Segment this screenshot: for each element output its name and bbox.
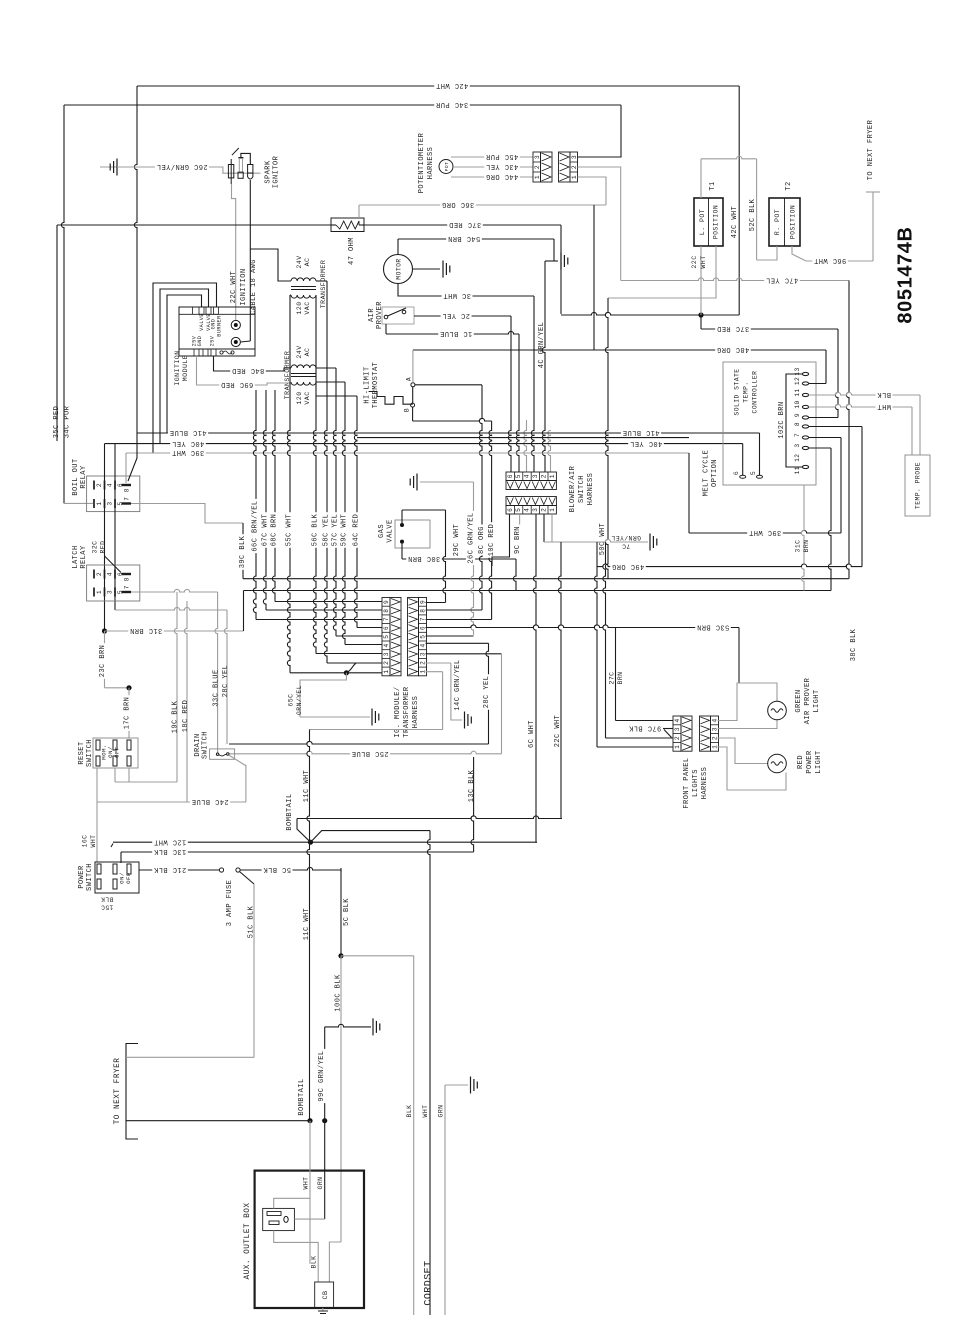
wire green light top path xyxy=(718,683,778,721)
wire 13C BLK riser xyxy=(471,757,474,852)
svg-text:GRN: GRN xyxy=(438,1105,445,1118)
svg-text:5: 5 xyxy=(420,635,427,639)
wire bombtail to bracket xyxy=(126,1120,310,1122)
wire T2 position to 96C WHT xyxy=(792,246,806,261)
wire 10C RED drop xyxy=(489,421,492,620)
svg-text:38C BLK: 38C BLK xyxy=(850,628,858,661)
wire 1C BLUE xyxy=(385,324,387,334)
label 67C WHT xyxy=(260,512,269,548)
svg-text:GAS: GAS xyxy=(378,524,386,538)
wire 26C GRN/YEL mid xyxy=(471,482,474,635)
label 41C BLUE right xyxy=(621,428,661,437)
wire 37C RED to T junction riser xyxy=(560,225,562,314)
svg-text:POT: POT xyxy=(444,162,450,172)
wire block2 pin5 from 26C xyxy=(426,635,474,637)
box solid state temp controller xyxy=(723,362,816,485)
label 58C YEL xyxy=(321,512,330,548)
wire 3C WHT drop to blower pin3 xyxy=(531,296,534,472)
svg-text:65C: 65C xyxy=(288,694,295,707)
svg-text:TEMP. PROBE: TEMP. PROBE xyxy=(915,462,922,509)
fan wire pin9 xyxy=(275,601,382,603)
box TEMP PROBE xyxy=(905,455,930,516)
fan wire pin2 xyxy=(327,662,382,664)
wire 99C GRN/YEL xyxy=(324,1027,326,1219)
svg-text:8: 8 xyxy=(124,577,131,581)
label 49C ORG xyxy=(610,562,646,571)
svg-text:2C YEL: 2C YEL xyxy=(442,311,470,319)
wire 39C BLK xyxy=(131,504,243,524)
svg-text:41C BLUE: 41C BLUE xyxy=(622,428,659,436)
svg-text:54C BRN: 54C BRN xyxy=(448,234,481,242)
svg-text:2: 2 xyxy=(674,736,681,740)
svg-text:13C BLK: 13C BLK xyxy=(153,847,186,855)
label 96C WHT xyxy=(812,256,848,265)
wire 39C WHT lower xyxy=(689,530,841,533)
label 39C WHT left xyxy=(170,448,206,457)
svg-text:58C YEL: 58C YEL xyxy=(322,514,330,547)
wire module top loop 2 xyxy=(160,289,209,444)
bus extra line xyxy=(357,437,689,439)
label 26C GRN/YEL mid xyxy=(466,511,475,565)
wire 99C ground lead xyxy=(325,1024,371,1027)
wire 36C ORG to 48C ORG riser xyxy=(593,205,595,350)
wire front pin3 line 97C BLK xyxy=(663,728,673,730)
svg-text:102C BRN: 102C BRN xyxy=(778,401,786,438)
wire thermostat A to 8C ORG drop xyxy=(415,384,482,386)
wire 47C YEL drop to bus line xyxy=(846,281,849,579)
label 59C WHT xyxy=(339,512,348,548)
ground spark igniter xyxy=(100,166,117,168)
wire 22C WHT T1 drop xyxy=(700,246,702,315)
wire 30C BRN xyxy=(401,542,403,559)
svg-text:29C WHT: 29C WHT xyxy=(453,524,461,557)
label 44C ORG xyxy=(484,172,520,181)
wire block2 pin3 to 25C riser xyxy=(426,653,502,655)
svg-text:2: 2 xyxy=(571,165,578,169)
svg-text:2: 2 xyxy=(96,483,103,487)
svg-text:31C: 31C xyxy=(795,540,802,553)
connector IG module harness left xyxy=(382,598,390,676)
wire 11C WHT main xyxy=(307,730,310,1121)
wire 35C RED xyxy=(56,225,58,441)
label 84C RED xyxy=(230,366,266,375)
svg-text:120: 120 xyxy=(296,301,303,314)
label 8C ORG xyxy=(476,525,485,556)
svg-text:14C GRN/YEL: 14C GRN/YEL xyxy=(454,659,462,710)
wire front pin1 line xyxy=(597,746,673,748)
wire 28C YEL upper xyxy=(224,610,227,744)
svg-text:3: 3 xyxy=(107,501,114,505)
wire front pin1 drop xyxy=(594,542,597,747)
svg-text:6: 6 xyxy=(507,508,514,512)
wire 23C to 17C link xyxy=(105,687,130,689)
wire 5C BLK horizontal xyxy=(240,867,341,870)
wire 45C PUR xyxy=(451,156,533,158)
label 31C BRN left xyxy=(128,626,164,635)
svg-text:34C PUR: 34C PUR xyxy=(63,405,71,438)
label 17C BRN xyxy=(122,695,131,731)
wire 42C WHT top bus xyxy=(137,85,739,87)
svg-text:25C BLUE: 25C BLUE xyxy=(351,749,388,757)
label 23C BRN xyxy=(97,643,106,679)
svg-text:8: 8 xyxy=(794,422,801,426)
svg-text:28C YEL: 28C YEL xyxy=(483,676,491,709)
svg-text:THERMOSTAT: THERMOSTAT xyxy=(372,362,380,409)
svg-text:7: 7 xyxy=(124,585,131,589)
svg-text:TO NEXT FRYER: TO NEXT FRYER xyxy=(867,119,875,180)
receptacle xyxy=(263,1208,295,1230)
svg-text:VALVE: VALVE xyxy=(386,519,394,542)
resistor 47 OHM xyxy=(331,218,364,232)
wire red light bottom path xyxy=(718,747,787,790)
svg-text:4: 4 xyxy=(107,483,114,487)
wire 2C YEL drop xyxy=(508,316,511,472)
svg-text:52C BLK: 52C BLK xyxy=(749,198,757,231)
wire 52C BLK xyxy=(756,159,758,260)
svg-text:1: 1 xyxy=(383,669,390,673)
wire thermostat A riser 48C xyxy=(412,350,414,383)
wire 28C YEL horizontal xyxy=(229,741,489,744)
wire ignition cable dark xyxy=(249,180,251,341)
relay K1 pins xyxy=(93,481,95,490)
wire 6C WHT corner xyxy=(536,841,537,843)
svg-text:BOMBTAIL: BOMBTAIL xyxy=(298,1078,306,1115)
label 56C BLK xyxy=(310,512,319,548)
label 3C WHT xyxy=(442,291,473,300)
wire 69C RED xyxy=(197,356,292,385)
svg-text:34C PUR: 34C PUR xyxy=(435,100,468,108)
wire 5C BLK drop xyxy=(340,868,342,872)
wire pin3 riser xyxy=(809,447,831,449)
svg-text:CORDSET: CORDSET xyxy=(424,1260,435,1305)
wire 31C BRN left xyxy=(105,630,244,632)
node 5C junction xyxy=(338,953,343,958)
svg-text:POSITION: POSITION xyxy=(790,205,797,239)
label 14C GRN/YEL xyxy=(452,658,461,712)
ignition module U1 xyxy=(179,307,255,356)
svg-text:18C RED: 18C RED xyxy=(182,700,190,733)
wire green light bottom path xyxy=(718,720,778,729)
svg-text:4: 4 xyxy=(524,508,531,512)
fan wire pin8 xyxy=(266,609,382,611)
wire 96C WHT xyxy=(806,260,873,262)
label 68C BRN xyxy=(269,512,278,548)
wire latch pin5 gray link xyxy=(115,607,227,610)
svg-text:OFF: OFF xyxy=(114,746,121,758)
ground motor xyxy=(442,261,444,278)
svg-text:HI-LIMIT: HI-LIMIT xyxy=(363,366,371,403)
wire 24C BLUE xyxy=(97,801,246,803)
label 54C BRN xyxy=(446,234,482,243)
wire 34C PUR to pot pin3 xyxy=(578,105,622,157)
box AUX OUTLET BOX xyxy=(255,1171,364,1308)
wire 11C WHT top link xyxy=(310,672,443,730)
svg-text:49C ORG: 49C ORG xyxy=(612,562,645,570)
svg-text:T2: T2 xyxy=(785,181,793,190)
svg-text:SWITCH: SWITCH xyxy=(86,739,94,767)
svg-text:2: 2 xyxy=(383,661,390,665)
wire blower pin5 down 9C BRN xyxy=(519,514,521,553)
potentiometer POT xyxy=(439,160,453,174)
wire 66C BRN/YEL xyxy=(253,390,256,620)
svg-text:AC: AC xyxy=(304,348,311,357)
svg-text:5: 5 xyxy=(515,508,522,512)
label 1C BLUE xyxy=(438,329,474,338)
svg-text:120: 120 xyxy=(296,391,303,404)
fan wire pin1 xyxy=(290,672,382,674)
ground cordset GRN xyxy=(470,1077,472,1094)
wire drain to 24C xyxy=(229,755,246,802)
svg-text:19C BLK: 19C BLK xyxy=(171,700,179,733)
svg-text:9: 9 xyxy=(420,600,427,604)
wire 5C to cordset BLK xyxy=(341,955,414,957)
wire 17C BRN xyxy=(128,688,130,738)
relay K2 LATCH RELAY box xyxy=(87,565,140,601)
svg-text:57C YEL: 57C YEL xyxy=(331,514,339,547)
svg-text:VAC: VAC xyxy=(304,301,311,314)
svg-text:WHT: WHT xyxy=(877,402,891,410)
svg-text:BRN: BRN xyxy=(803,540,810,553)
wire TR2 box bottom to 64C xyxy=(316,395,357,397)
svg-text:4C GRN/YEL: 4C GRN/YEL xyxy=(538,322,546,369)
svg-text:GND: GND xyxy=(197,336,203,347)
wire 42C WHT left drop xyxy=(134,86,137,433)
connector blower air switch bottom xyxy=(506,506,556,515)
svg-text:67C WHT: 67C WHT xyxy=(261,514,269,547)
svg-text:VAC: VAC xyxy=(304,391,311,404)
wire 28C YEL lower xyxy=(486,643,489,744)
svg-text:36C ORG: 36C ORG xyxy=(442,200,475,208)
wire 7C GRN/YEL line xyxy=(544,539,648,542)
lamp red power light xyxy=(768,754,787,773)
label 37C RED upper xyxy=(447,220,483,229)
svg-text:59C WHT: 59C WHT xyxy=(340,514,348,547)
wire 41C BLUE diagonal to pin8 xyxy=(128,433,137,481)
svg-text:3: 3 xyxy=(712,727,719,731)
svg-text:8051474B: 8051474B xyxy=(894,226,916,323)
wire 36C ORG xyxy=(359,204,606,206)
svg-text:MELT CYCLE: MELT CYCLE xyxy=(702,450,710,497)
wire 39C WHT link riser xyxy=(688,453,690,533)
connector blower air switch top xyxy=(506,472,556,481)
wire 18C RED xyxy=(184,601,187,802)
label 57C YEL xyxy=(330,512,339,548)
wire T1 position drop xyxy=(608,246,716,298)
switch drain xyxy=(210,749,235,759)
wire 30C BRN drop xyxy=(513,559,516,591)
node bombtail lower xyxy=(307,1118,312,1123)
wire GRN to receptacle xyxy=(294,1218,324,1220)
relay K2 pins xyxy=(93,570,95,579)
svg-text:IGNITION: IGNITION xyxy=(174,350,181,385)
svg-text:2: 2 xyxy=(96,572,103,576)
gas valve xyxy=(395,520,430,548)
wire gas valve top to 29C WHT xyxy=(401,510,403,525)
label 26C GRN/YEL xyxy=(155,162,209,171)
label 55C WHT xyxy=(284,512,293,548)
svg-text:11C WHT: 11C WHT xyxy=(303,770,311,803)
node 17C BRN junction xyxy=(126,685,131,690)
wire 37C RED drop to pin9 xyxy=(835,329,838,418)
svg-text:42C WHT: 42C WHT xyxy=(731,206,739,239)
svg-text:SWITCH: SWITCH xyxy=(86,863,94,891)
wire T1 top link xyxy=(700,159,702,198)
svg-text:24C BLUE: 24C BLUE xyxy=(191,797,228,805)
svg-text:HARNESS: HARNESS xyxy=(427,147,435,180)
wire 31C BRN controller drop xyxy=(801,485,804,591)
svg-text:7: 7 xyxy=(124,497,131,501)
wire block2 pin8 from 8C xyxy=(426,609,483,611)
wire 47C YEL xyxy=(621,278,849,281)
circuit breaker CB xyxy=(315,1282,334,1308)
label 21C BLK xyxy=(152,865,188,874)
wire 64C RED xyxy=(354,396,357,628)
bus 39C WHT xyxy=(126,452,689,454)
wire 102C BRN bracket xyxy=(786,374,802,467)
wire reset pin to 19C link xyxy=(114,768,116,782)
svg-text:15C: 15C xyxy=(101,903,114,910)
node 31C BRN junction xyxy=(102,628,107,633)
svg-text:R. POT: R. POT xyxy=(774,209,781,235)
wire 40C YEL drop to pin4 xyxy=(104,444,106,631)
svg-text:100C BLK: 100C BLK xyxy=(334,974,342,1012)
svg-text:24V: 24V xyxy=(296,345,303,358)
svg-text:13C BLK: 13C BLK xyxy=(468,769,476,802)
svg-text:8: 8 xyxy=(420,609,427,613)
wire 2C YEL xyxy=(414,315,511,317)
svg-text:39C WHT: 39C WHT xyxy=(172,448,205,456)
svg-text:RED: RED xyxy=(797,755,805,769)
svg-text:L. POT: L. POT xyxy=(699,209,706,235)
wire 37C RED lower xyxy=(700,315,702,329)
svg-text:55C WHT: 55C WHT xyxy=(285,514,293,547)
svg-text:TEMP.: TEMP. xyxy=(743,381,750,402)
svg-text:BOMBTAIL: BOMBTAIL xyxy=(286,793,294,830)
wire probe BLK xyxy=(809,392,920,395)
wire 57C YEL xyxy=(333,368,336,636)
wire 14C GRN/YEL xyxy=(451,663,462,720)
svg-text:8: 8 xyxy=(124,488,131,492)
svg-text:GRN/YEL: GRN/YEL xyxy=(296,685,303,715)
ground 65C xyxy=(371,709,373,726)
wire TR2 24V right to 57C xyxy=(316,367,336,369)
svg-text:16C: 16C xyxy=(82,835,89,848)
label 66C BRN/YEL xyxy=(250,499,259,553)
svg-text:POSITION: POSITION xyxy=(713,205,720,239)
svg-text:OFF: OFF xyxy=(125,872,132,884)
svg-text:6: 6 xyxy=(733,471,740,475)
wire 38C BLK xyxy=(861,427,863,567)
svg-text:POTENTIOMETER: POTENTIOMETER xyxy=(418,132,426,193)
svg-text:9: 9 xyxy=(383,600,390,604)
wire 55C WHT xyxy=(287,295,290,673)
svg-text:AC: AC xyxy=(304,258,311,267)
svg-text:BLOWER/AIR: BLOWER/AIR xyxy=(569,465,577,512)
svg-text:4: 4 xyxy=(420,643,427,647)
fan wire pin4 xyxy=(345,644,382,646)
svg-text:A: A xyxy=(406,377,413,381)
wire 4C GRN/YEL ground lead xyxy=(545,260,558,262)
svg-text:5C BLK: 5C BLK xyxy=(263,865,291,873)
bracket to next fryer xyxy=(126,1044,138,1140)
svg-text:FRONT PANEL: FRONT PANEL xyxy=(683,757,691,808)
svg-text:64C RED: 64C RED xyxy=(352,514,360,547)
wire 1C BLUE drop xyxy=(516,334,519,472)
svg-text:24V: 24V xyxy=(296,255,303,268)
svg-text:LIGHT: LIGHT xyxy=(815,750,823,773)
label 45C PUR xyxy=(484,152,520,161)
svg-text:RELAY: RELAY xyxy=(80,545,88,569)
motor M1 xyxy=(384,255,413,284)
air prover switch xyxy=(382,307,414,324)
svg-text:WHT: WHT xyxy=(422,1105,429,1118)
wire 33C BLUE xyxy=(215,592,218,753)
connector front panel right xyxy=(711,716,719,751)
svg-text:3C WHT: 3C WHT xyxy=(443,291,471,299)
relay K1 BOIL OUT RELAY box xyxy=(87,476,140,512)
svg-text:POWER: POWER xyxy=(806,750,814,774)
fan wire pin5 xyxy=(336,635,382,637)
wire 39C WHT drop xyxy=(125,453,127,483)
ground 4C GRN/YEL xyxy=(560,253,562,270)
wire motor top stub xyxy=(397,239,399,255)
wire 13C BLK xyxy=(121,851,474,853)
wire block2 pin4 to 28C YEL xyxy=(426,642,489,644)
svg-text:5: 5 xyxy=(750,471,757,475)
svg-text:1: 1 xyxy=(549,508,556,512)
wire pin7 riser xyxy=(809,437,841,439)
label 53C BRN xyxy=(695,623,731,632)
svg-text:28C YEL: 28C YEL xyxy=(222,665,230,698)
label 47C YEL xyxy=(764,276,800,285)
ground 7C xyxy=(649,534,651,551)
wire TR1 24V right to 58C xyxy=(316,280,327,282)
svg-text:66C BRN/YEL: 66C BRN/YEL xyxy=(251,500,259,551)
hi-limit thermostat element xyxy=(412,387,414,403)
svg-text:BLK: BLK xyxy=(406,1105,413,1118)
bus line2 xyxy=(244,590,832,592)
svg-text:6C WHT: 6C WHT xyxy=(528,720,536,748)
wire 25C BLUE xyxy=(229,751,502,754)
wire 19C BLK xyxy=(174,592,177,782)
wire module top loop 3 xyxy=(167,295,202,433)
svg-text:PROVER: PROVER xyxy=(376,301,384,329)
svg-text:17C BRN: 17C BRN xyxy=(123,697,131,730)
svg-text:5C BLK: 5C BLK xyxy=(343,898,351,926)
wire block2 pin2 to 14C xyxy=(426,662,451,664)
label 34C PUR xyxy=(434,100,470,109)
label 5C BLK horizontal xyxy=(262,865,293,874)
node 65C junction xyxy=(344,670,349,675)
svg-text:BOIL OUT: BOIL OUT xyxy=(72,458,80,495)
wire motor ground lead xyxy=(413,268,441,270)
svg-text:B: B xyxy=(404,408,411,412)
svg-text:LATCH: LATCH xyxy=(72,545,80,568)
wire fuse diagonal to 51C xyxy=(240,872,255,885)
svg-text:22C WHT: 22C WHT xyxy=(554,715,562,748)
wire receptacle top to WHT xyxy=(274,1198,310,1208)
box R POT POSITION T2 xyxy=(769,198,800,246)
svg-text:6: 6 xyxy=(383,626,390,630)
svg-text:33C BLUE: 33C BLUE xyxy=(212,669,220,706)
ground 14C xyxy=(464,712,466,729)
wire 48C ORG drop to pin12 xyxy=(825,350,827,384)
svg-text:23C BRN: 23C BRN xyxy=(99,645,107,678)
svg-text:1: 1 xyxy=(571,175,578,179)
label 24C BLUE xyxy=(190,797,230,806)
wire latch pin7 gray link xyxy=(131,589,218,592)
svg-text:CB: CB xyxy=(322,1290,330,1299)
